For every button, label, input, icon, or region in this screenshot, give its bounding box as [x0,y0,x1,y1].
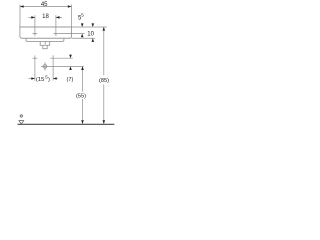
svg-text:(15: (15 [36,77,45,83]
svg-text:5: 5 [81,12,84,17]
svg-text:(7): (7) [66,77,73,83]
svg-text:(85): (85) [99,78,109,84]
svg-text:10: 10 [87,32,94,38]
svg-text:): ) [48,77,50,83]
svg-text:(55): (55) [76,93,86,99]
svg-text:18: 18 [42,14,49,20]
svg-text:45: 45 [41,2,48,8]
